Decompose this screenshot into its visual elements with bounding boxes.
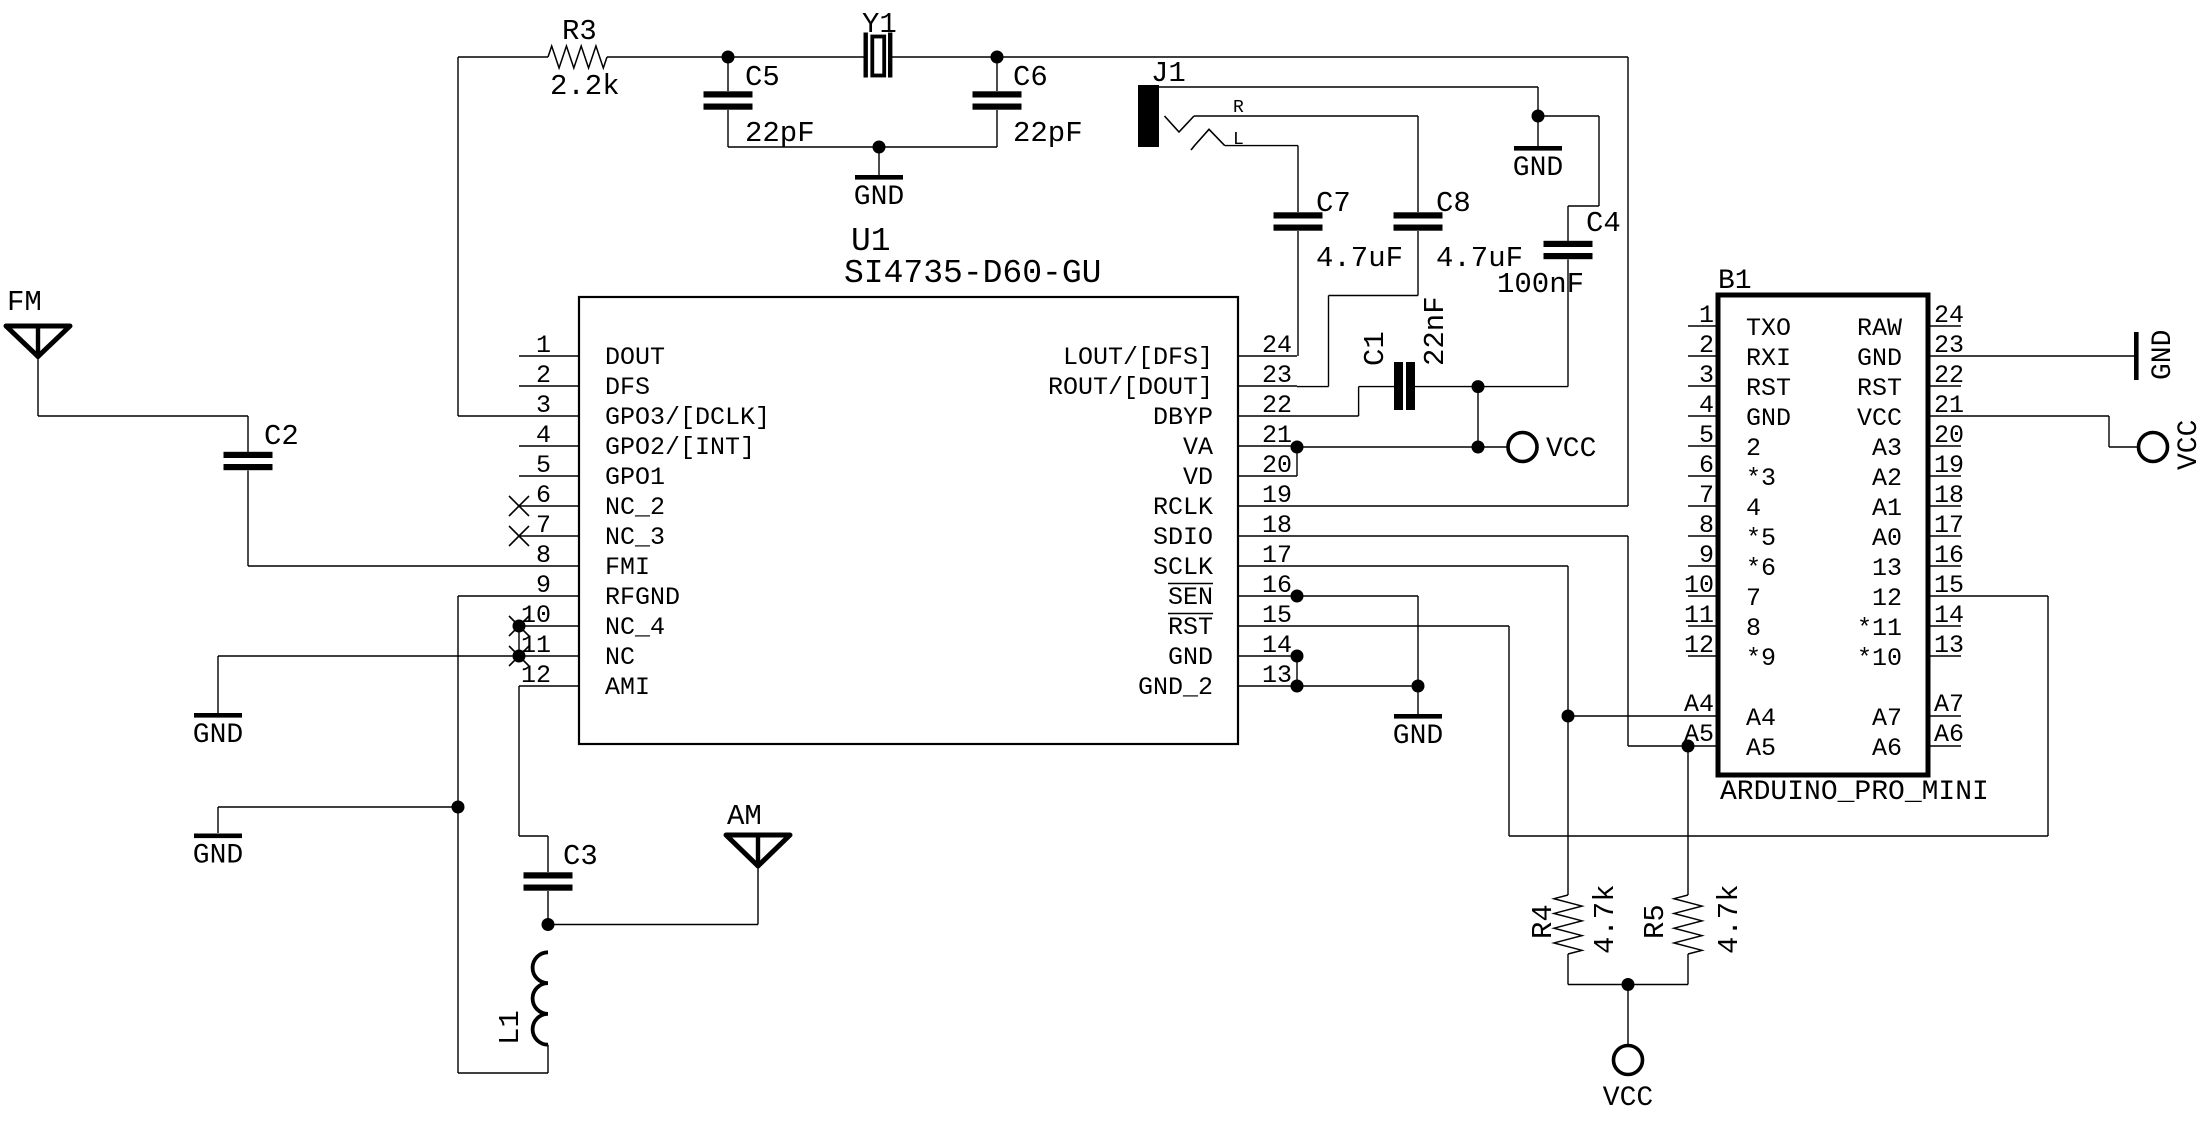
svg-text:GND: GND	[1746, 404, 1791, 433]
svg-text:7: 7	[1746, 584, 1761, 613]
svg-text:*9: *9	[1746, 644, 1776, 673]
svg-text:8: 8	[1699, 511, 1714, 540]
svg-text:5: 5	[536, 451, 551, 480]
svg-text:AMI: AMI	[605, 673, 650, 702]
svg-text:4.7uF: 4.7uF	[1316, 242, 1403, 275]
svg-text:J1: J1	[1151, 57, 1186, 90]
svg-text:NC_2: NC_2	[605, 493, 665, 522]
svg-text:20: 20	[1934, 421, 1964, 450]
svg-text:C2: C2	[264, 420, 299, 453]
svg-text:4.7k: 4.7k	[1713, 884, 1746, 954]
svg-text:GPO2/[INT]: GPO2/[INT]	[605, 433, 755, 462]
svg-text:9: 9	[1699, 541, 1714, 570]
svg-text:GND: GND	[1168, 643, 1213, 672]
svg-text:A3: A3	[1872, 434, 1902, 463]
svg-text:GND_2: GND_2	[1138, 673, 1213, 702]
svg-text:TXO: TXO	[1746, 314, 1791, 343]
svg-text:13: 13	[1262, 661, 1292, 690]
svg-text:13: 13	[1934, 631, 1964, 660]
svg-text:20: 20	[1262, 451, 1292, 480]
svg-text:B1: B1	[1718, 266, 1752, 297]
svg-text:5: 5	[1699, 421, 1714, 450]
svg-text:14: 14	[1262, 631, 1292, 660]
svg-text:3: 3	[1699, 361, 1714, 390]
svg-text:NC: NC	[605, 643, 635, 672]
svg-text:DFS: DFS	[605, 373, 650, 402]
svg-text:R5: R5	[1639, 904, 1672, 939]
svg-text:RST: RST	[1857, 374, 1902, 403]
svg-text:SI4735-D60-GU: SI4735-D60-GU	[844, 255, 1101, 292]
svg-text:VA: VA	[1183, 433, 1213, 462]
svg-text:24: 24	[1934, 301, 1964, 330]
svg-text:ARDUINO_PRO_MINI: ARDUINO_PRO_MINI	[1720, 777, 1989, 808]
svg-text:FM: FM	[7, 286, 42, 319]
svg-text:VCC: VCC	[2174, 420, 2205, 470]
svg-text:19: 19	[1934, 451, 1964, 480]
svg-text:LOUT/[DFS]: LOUT/[DFS]	[1063, 343, 1213, 372]
svg-text:12: 12	[521, 661, 551, 690]
svg-text:C4: C4	[1586, 207, 1621, 240]
svg-text:3: 3	[536, 391, 551, 420]
svg-text:C5: C5	[745, 61, 780, 94]
svg-text:16: 16	[1262, 571, 1292, 600]
svg-text:100nF: 100nF	[1497, 268, 1584, 301]
svg-text:19: 19	[1262, 481, 1292, 510]
svg-text:L1: L1	[494, 1010, 527, 1045]
svg-text:A4: A4	[1746, 704, 1776, 733]
svg-text:GND: GND	[193, 720, 243, 751]
svg-text:RFGND: RFGND	[605, 583, 680, 612]
svg-text:NC_3: NC_3	[605, 523, 665, 552]
svg-text:VCC: VCC	[1857, 404, 1902, 433]
svg-text:10: 10	[1684, 571, 1714, 600]
svg-text:17: 17	[1262, 541, 1292, 570]
svg-text:2: 2	[1746, 434, 1761, 463]
svg-text:4: 4	[536, 421, 551, 450]
svg-text:4: 4	[1699, 391, 1714, 420]
svg-text:C8: C8	[1436, 187, 1471, 220]
svg-text:A6: A6	[1872, 734, 1902, 763]
svg-text:C6: C6	[1013, 61, 1048, 94]
svg-text:4: 4	[1746, 494, 1761, 523]
svg-text:FMI: FMI	[605, 553, 650, 582]
svg-text:12: 12	[1872, 584, 1902, 613]
svg-text:VD: VD	[1183, 463, 1213, 492]
svg-text:4.7k: 4.7k	[1589, 884, 1622, 954]
svg-text:C3: C3	[563, 840, 598, 873]
svg-text:24: 24	[1262, 331, 1292, 360]
svg-text:GPO1: GPO1	[605, 463, 665, 492]
svg-text:GND: GND	[1857, 344, 1902, 373]
svg-text:12: 12	[1684, 631, 1714, 660]
svg-text:*6: *6	[1746, 554, 1776, 583]
svg-text:SDIO: SDIO	[1153, 523, 1213, 552]
svg-text:18: 18	[1262, 511, 1292, 540]
svg-text:GND: GND	[2148, 330, 2179, 380]
svg-text:7: 7	[1699, 481, 1714, 510]
svg-text:R: R	[1233, 98, 1244, 118]
svg-text:C7: C7	[1316, 187, 1351, 220]
svg-text:Y1: Y1	[862, 8, 897, 41]
svg-text:22pF: 22pF	[745, 117, 815, 150]
svg-text:8: 8	[1746, 614, 1761, 643]
svg-text:GND: GND	[854, 182, 904, 213]
svg-text:*3: *3	[1746, 464, 1776, 493]
svg-text:A4: A4	[1684, 690, 1714, 719]
svg-text:SEN: SEN	[1168, 583, 1213, 612]
svg-text:R4: R4	[1527, 904, 1560, 939]
svg-text:L: L	[1233, 130, 1244, 150]
svg-text:RST: RST	[1168, 613, 1213, 642]
svg-text:2: 2	[536, 361, 551, 390]
svg-text:RCLK: RCLK	[1153, 493, 1213, 522]
svg-text:C1: C1	[1359, 331, 1392, 366]
svg-text:VCC: VCC	[1546, 434, 1596, 465]
svg-text:*5: *5	[1746, 524, 1776, 553]
svg-text:DOUT: DOUT	[605, 343, 665, 372]
svg-text:23: 23	[1934, 331, 1964, 360]
svg-text:23: 23	[1262, 361, 1292, 390]
svg-text:A7: A7	[1872, 704, 1902, 733]
svg-text:21: 21	[1262, 421, 1292, 450]
svg-text:VCC: VCC	[1603, 1083, 1653, 1114]
svg-text:AM: AM	[727, 800, 762, 833]
svg-text:9: 9	[536, 571, 551, 600]
svg-text:21: 21	[1934, 391, 1964, 420]
svg-text:NC_4: NC_4	[605, 613, 665, 642]
svg-text:17: 17	[1934, 511, 1964, 540]
svg-text:DBYP: DBYP	[1153, 403, 1213, 432]
svg-text:RST: RST	[1746, 374, 1791, 403]
svg-text:*11: *11	[1857, 614, 1902, 643]
svg-text:R3: R3	[562, 15, 597, 48]
svg-text:8: 8	[536, 541, 551, 570]
svg-text:22nF: 22nF	[1419, 296, 1452, 366]
svg-text:7: 7	[536, 511, 551, 540]
svg-text:22: 22	[1262, 391, 1292, 420]
svg-text:2: 2	[1699, 331, 1714, 360]
svg-text:A0: A0	[1872, 524, 1902, 553]
svg-text:A7: A7	[1934, 690, 1964, 719]
svg-text:GPO3/[DCLK]: GPO3/[DCLK]	[605, 403, 770, 432]
svg-text:A5: A5	[1746, 734, 1776, 763]
svg-text:GND: GND	[193, 841, 243, 872]
svg-text:SCLK: SCLK	[1153, 553, 1213, 582]
svg-text:RAW: RAW	[1857, 314, 1902, 343]
svg-text:1: 1	[1699, 301, 1714, 330]
svg-text:GND: GND	[1513, 153, 1563, 184]
svg-text:1: 1	[536, 331, 551, 360]
svg-text:2.2k: 2.2k	[550, 70, 620, 103]
svg-text:14: 14	[1934, 601, 1964, 630]
svg-text:15: 15	[1262, 601, 1292, 630]
svg-text:15: 15	[1934, 571, 1964, 600]
svg-text:16: 16	[1934, 541, 1964, 570]
svg-text:A2: A2	[1872, 464, 1902, 493]
svg-text:RXI: RXI	[1746, 344, 1791, 373]
svg-text:6: 6	[1699, 451, 1714, 480]
svg-text:18: 18	[1934, 481, 1964, 510]
svg-text:13: 13	[1872, 554, 1902, 583]
svg-text:A6: A6	[1934, 720, 1964, 749]
svg-text:22: 22	[1934, 361, 1964, 390]
svg-text:GND: GND	[1393, 721, 1443, 752]
svg-text:A1: A1	[1872, 494, 1902, 523]
svg-text:22pF: 22pF	[1013, 117, 1083, 150]
svg-text:11: 11	[1684, 601, 1714, 630]
svg-text:ROUT/[DOUT]: ROUT/[DOUT]	[1048, 373, 1213, 402]
svg-text:6: 6	[536, 481, 551, 510]
svg-text:*10: *10	[1857, 644, 1902, 673]
